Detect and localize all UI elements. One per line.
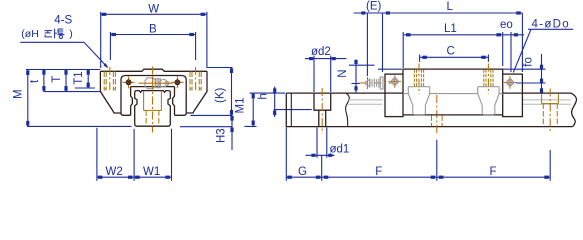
dimension N [337,60,375,94]
dimension T1 [73,70,95,89]
dimension F (second) [437,150,550,181]
block body side view [403,69,503,115]
oDo hole left cap (crosshair) [389,75,401,87]
dimension H3 [180,110,234,150]
dimension eo [500,19,518,72]
rail side view outline [286,93,576,126]
svg-text:W: W [148,3,159,15]
korean text gwantong (drawn strokes) [45,29,65,39]
rail mounting hole 3 (hidden) [542,89,559,134]
rail mounting hole 2 (hidden) [432,95,443,134]
block silhouette left view [100,69,207,113]
svg-text:4-S: 4-S [54,14,72,26]
label 4-oDo with leader [513,19,573,73]
dimension od2 [305,46,346,92]
svg-text:L1: L1 [444,23,457,35]
dimension W1 [134,129,171,181]
rail cross-section [135,91,171,127]
4-S thread holes in wings (left view) [104,67,202,92]
dimension B [110,24,195,60]
dimension M1 [235,93,286,126]
grease nipple side view [359,77,393,89]
svg-text:(K): (K) [215,88,227,104]
rail mounting hole 1 (open, counterbored) [314,88,331,133]
rail bolt hole hidden lines (left view) [144,92,162,125]
end cap screw left [123,76,135,88]
rail side grooves [348,100,571,104]
dimension M [13,70,132,127]
svg-text:B: B [149,24,157,36]
svg-text:eo: eo [500,19,513,31]
grease nipple front view [138,77,172,90]
end cap left (side view) [385,74,403,117]
svg-text:H3: H3 [216,128,228,143]
svg-text:F: F [490,166,497,178]
dimension L1 [403,23,524,68]
dimension h [258,87,312,118]
svg-text:L: L [447,1,454,13]
svg-text:W1: W1 [143,166,160,178]
label 4-S (oH through) with leader [20,14,108,68]
svg-text:M1: M1 [235,98,247,114]
svg-text:): ) [69,28,73,40]
dimension W2 [97,128,134,181]
svg-text:T1: T1 [73,71,85,84]
svg-text:h: h [258,93,270,99]
svg-text:4-øDo: 4-øDo [532,19,570,31]
dimension od1 [306,128,350,158]
end cap right (side view) [503,74,523,117]
oDo hole right cap (crosshair) [504,76,516,88]
dimension F (first) [322,140,437,181]
svg-text:T: T [51,76,63,83]
dimension C [420,46,489,62]
end cap face left view [121,76,186,116]
dimension G [286,128,321,181]
dimension K [190,68,233,121]
end cap screw right [171,76,183,88]
svg-text:(øH: (øH [21,28,39,40]
svg-text:F: F [375,166,382,178]
dimension t [29,70,100,92]
svg-text:M: M [13,89,25,99]
rail centerline (left view) [152,67,154,133]
blue ref line at body top left [378,68,402,70]
svg-text:ød1: ød1 [330,144,350,156]
dimension W [101,3,207,68]
block thread holes (side view, hidden) [414,64,493,95]
svg-text:(E): (E) [366,1,382,13]
dimension fo [503,54,546,93]
dimension E [354,1,391,76]
internal ball circulation legs (gray) [403,87,503,115]
svg-text:G: G [298,166,307,178]
svg-text:N: N [337,69,349,77]
svg-text:C: C [447,46,455,58]
svg-text:ød2: ød2 [311,46,331,58]
svg-text:W2: W2 [106,166,123,178]
svg-text:fo: fo [522,57,534,67]
dimension T [51,70,68,92]
dimension L [383,1,523,72]
